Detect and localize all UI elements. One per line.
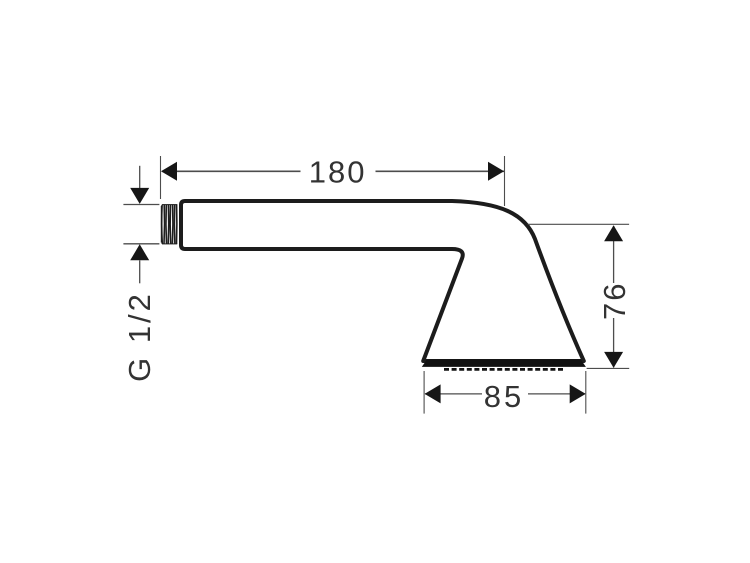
dim 76 extension line top bbox=[528, 223, 629, 225]
dim 85 extension line right bbox=[585, 371, 587, 414]
shower body outline bbox=[181, 201, 584, 361]
dim 85 arrow right bbox=[570, 384, 586, 403]
dim 180 line left segment bbox=[162, 170, 301, 172]
dim 85 line left segment bbox=[425, 393, 482, 395]
dim 85 line right segment bbox=[528, 393, 585, 395]
dim 85 arrow left bbox=[425, 384, 441, 403]
dim G1/2 tick top bbox=[123, 204, 159, 206]
thread G1/2 hatching bbox=[162, 204, 177, 244]
dim 180 line right segment bbox=[376, 170, 505, 172]
spray-face base bar bbox=[422, 359, 586, 367]
dim G1/2 tick bottom bbox=[123, 243, 159, 245]
dim 76 extension line bottom bbox=[587, 367, 630, 369]
dim 180 arrow left bbox=[161, 162, 177, 181]
dim G1/2 arrow down bbox=[130, 188, 149, 204]
dim 76 line upper segment bbox=[613, 226, 615, 283]
dim 180 arrow right bbox=[488, 162, 504, 181]
svg-text:180: 180 bbox=[309, 155, 367, 190]
dim 76 arrow up bbox=[604, 225, 623, 241]
svg-text:G 1/2: G 1/2 bbox=[122, 291, 157, 382]
thread silhouette edges bbox=[161, 205, 177, 244]
svg-text:76: 76 bbox=[597, 282, 632, 320]
dim 76 arrow down bbox=[604, 352, 623, 368]
dim G1/2 arrow up bbox=[130, 244, 149, 260]
dim G1/2 lower line bbox=[139, 260, 141, 283]
dim 76 line lower segment bbox=[613, 318, 615, 368]
dim G1/2 upper line bbox=[139, 166, 141, 190]
svg-text:85: 85 bbox=[484, 379, 524, 414]
dim 180 extension line left bbox=[160, 156, 162, 199]
nozzle dotted line bbox=[444, 368, 564, 371]
dim 180 extension line right bbox=[504, 156, 506, 206]
dim 85 extension line left bbox=[423, 371, 425, 414]
